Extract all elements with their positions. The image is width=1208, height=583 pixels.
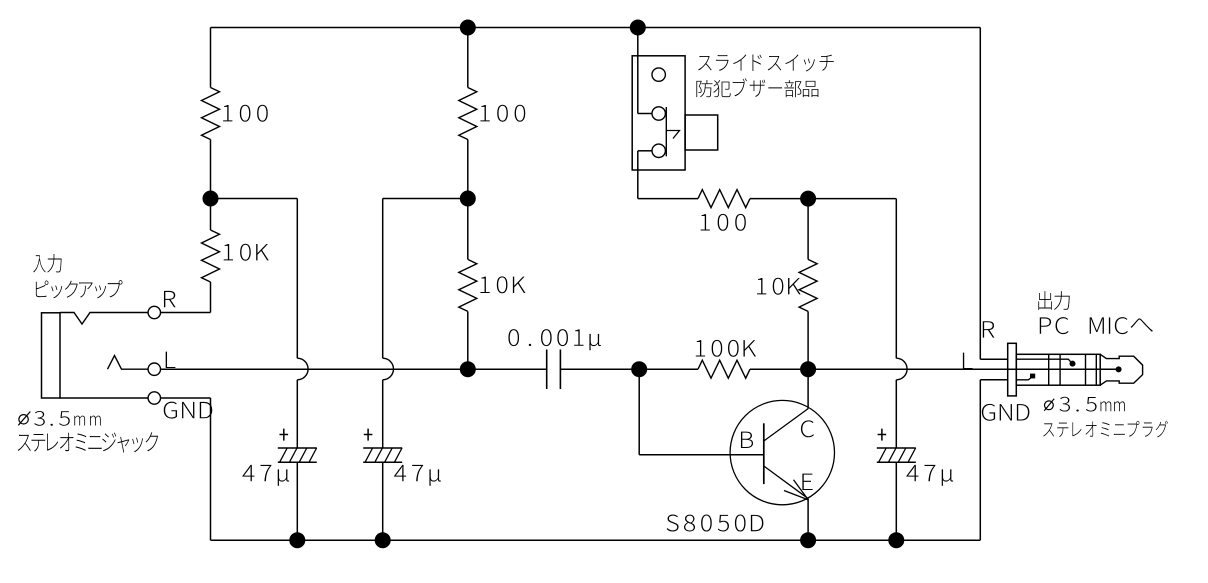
plug L tip dot [1116,366,1122,372]
transistor collector stroke [764,409,809,442]
wire rail to switch [637,28,639,114]
wire 10K mid to L line [467,311,469,369]
label L jack [166,352,176,368]
wire C1 branch upper [296,199,298,359]
plug band line 4 [1095,354,1097,385]
wire rail to 100 mid [467,28,469,88]
node C junction (808.1,198.6) [800,191,816,207]
resistor 100 collector feed [698,190,750,208]
label output [1038,291,1069,310]
resistor 100K feedback [698,360,750,378]
wire base tap right [639,454,764,456]
resistor 100 input R bias upper [202,88,220,140]
label GND jack [164,402,213,419]
connector J1 3.5mm stereo mini jack body [42,313,61,398]
plug R contact dot [1070,361,1076,367]
label B [741,432,753,448]
plug GND sleeve wire [1016,376,1033,379]
capacitor 47u C2 polarity + [364,434,373,436]
label C [801,420,814,437]
wire bottom ground rail [211,539,981,541]
wire collector up [807,369,809,408]
wire C2 branch to cap [382,380,384,448]
plug P1 body [1016,354,1100,385]
transistor emitter arrow [794,480,809,500]
wire C1 branch to cap [296,380,298,448]
wire node B to 10K mid [467,199,469,260]
plug band line 3 [1085,354,1087,385]
wire node C to 10K right [807,199,809,260]
label o35mm R [1059,397,1124,412]
switch contact 3 [652,144,665,157]
plug R ring wire [1016,359,1072,363]
wire L line left (jack to coupling cap) [161,368,547,370]
capacitor 47u C3 [877,447,916,449]
wire 100 to node B [467,140,469,199]
wire 100 to node A [210,140,212,199]
wire base tap down [638,369,640,455]
capacitor 47u C1 [278,447,317,449]
label 100 #2 [480,105,525,122]
label 47u C2 [394,465,441,486]
wire left branch top (rail to 100) [210,28,212,88]
node C1-ground junction [289,532,305,548]
label plug size ø3.5mm [1045,401,1054,410]
capacitor 47u C3 polarity + [878,434,887,436]
switch SW1 side tab [685,115,718,150]
wire C3 branch to cap [895,380,897,448]
switch contact 1 [652,68,665,81]
node base junction (639.2,369.2) [631,361,647,377]
wire C1 to bottom rail [296,462,298,540]
wire L line mid (cap to 100K) [560,368,698,370]
jack GND contact circle [148,392,160,404]
wire C2 branch upper [382,199,384,359]
switch SW1 body [632,56,685,170]
jack R spring contact [60,313,148,325]
node C2-ground junction [375,532,391,548]
label sutereo jack [18,432,158,452]
switch contact 2 (common) [652,107,665,120]
label 10K #3 [757,278,801,295]
plug band line 1 [1048,354,1050,385]
transistor Q1 S8050D circle [730,400,834,504]
jack R contact circle [148,306,160,318]
label nyuuryoku [33,254,61,273]
node C3-ground junction [888,532,904,548]
node collector junction (808.1,369.2) [800,361,816,377]
label 100 #1 [223,105,268,122]
capacitor 0.001u right plate [559,350,561,390]
label 100 #3 [701,214,746,231]
plug P1 flange [1008,343,1017,396]
wire switch to 100 [638,198,698,200]
plug band line 2 [1059,354,1061,385]
capacitor 0.001u left plate [546,350,548,390]
label jack size ø3.5mm [19,415,28,424]
wire C2 to bottom rail [382,462,384,540]
capacitor 47u C1 polarity + [280,434,289,436]
jack L spring contact [108,356,149,370]
node A junction (210.5,198.5) [203,191,219,207]
label 47u C3 [906,465,953,486]
wire plug R from top rail [979,28,981,360]
wire C3 to bottom rail [895,462,897,540]
label buzzer part [696,78,818,97]
jack L contact circle [148,363,160,375]
resistor 100 input L bias upper [459,88,477,140]
wire emitter down [807,499,809,541]
label 100K [696,340,756,357]
node B junction (467.8,198.5) [460,191,476,207]
capacitor 47u C2 [363,447,402,449]
wire 10K to R contact [210,282,212,313]
label sutereo plug [1043,421,1168,438]
node rail junction switch [630,20,646,36]
node emitter-ground junction [800,532,816,548]
wire 10K right to collector node [807,311,809,369]
label pickup [36,280,123,298]
label L plug [963,353,973,369]
label R plug [983,321,995,337]
wire C3 branch upper [895,199,897,359]
label he [1131,318,1153,331]
label 10K #1 [224,244,269,261]
label E [802,474,812,490]
wire hop C1 branch over L line [297,358,308,380]
label S8050D [667,515,764,532]
wire jack GND to bottom rail [161,397,211,399]
plug tip outline [1100,354,1142,385]
label 0.001u [508,329,600,350]
label o35mm L [34,411,101,426]
switch slider arrow [666,131,679,139]
label 47u C1 [242,465,289,486]
resistor 10K input R bias lower [202,230,220,282]
wire node A to C1 branch [211,198,298,200]
label GND plug [982,404,1030,421]
label 10K #2 [480,276,525,293]
label PC MIC [1040,317,1128,334]
resistor 10K collector load [799,259,817,311]
transistor emitter stroke [764,466,809,499]
transistor base bar [763,423,765,484]
wire plug GND to bottom rail [979,380,981,540]
switch slider bar [665,107,667,156]
wire 100 to node C [750,198,896,200]
resistor 10K input L bias lower [459,259,477,311]
node L-line junction mid [460,361,476,377]
wire hop C3 branch over L line [896,358,907,380]
wire hop C2 branch over L line [383,358,394,380]
wire node A to 10K [210,199,212,231]
wire switch bottom contact out [638,150,652,152]
wire node B to C2 branch [383,198,468,200]
wire top supply rail [211,27,981,29]
label R jack [164,291,176,307]
node rail junction mid [460,20,476,36]
wire L line right (100K to plug) [750,368,1119,370]
label slide switch [698,54,834,71]
jack GND contact wire [60,397,148,399]
plug GND contact square [1030,374,1035,379]
